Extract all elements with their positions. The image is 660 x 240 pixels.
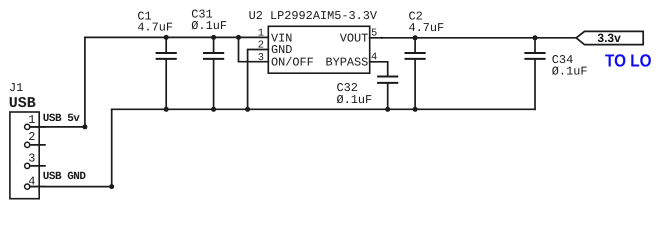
net label USB 5v <box>43 113 81 125</box>
label C1 <box>137 10 173 35</box>
pin number J1 1 <box>28 113 35 127</box>
svg-text:TO LO: TO LO <box>605 50 652 70</box>
svg-text:4.7uF: 4.7uF <box>137 20 173 34</box>
IC U2 LP2992AIM5-3.3V body <box>268 26 369 73</box>
junction node C1 bottom <box>164 107 169 112</box>
connector J1 pin 4 <box>25 184 45 189</box>
svg-text:Ø.1uF: Ø.1uF <box>191 19 227 33</box>
connector J1 pin 1 <box>25 124 45 129</box>
label J1 <box>9 81 23 95</box>
wire USB 5v from J1 pin1 to riser <box>30 126 85 128</box>
label C32 <box>337 81 373 107</box>
wire VIN branch down to ON/OFF pin <box>239 37 269 61</box>
connector J1 box <box>10 112 39 199</box>
net label USB GND <box>43 171 87 183</box>
junction node C34 top <box>533 35 538 40</box>
svg-text:VOUT: VOUT <box>340 31 369 45</box>
capacitor C2 <box>406 38 425 110</box>
wire BYPASS to C32 <box>370 62 388 76</box>
pin number J1 2 <box>28 130 35 144</box>
svg-text:2: 2 <box>28 130 35 144</box>
flag 3.3v <box>576 31 643 44</box>
label TO LO <box>605 50 652 70</box>
label C34 <box>552 53 588 78</box>
svg-text:3.3v: 3.3v <box>597 31 621 45</box>
pin number J1 3 <box>28 151 35 165</box>
junction node C1 top <box>164 35 169 40</box>
wire VOUT rail to flag <box>370 37 577 39</box>
junction node C2 bottom <box>413 107 418 112</box>
capacitor C32 <box>378 77 397 110</box>
svg-text:4.7uF: 4.7uF <box>409 21 445 35</box>
svg-text:USB GND: USB GND <box>43 171 87 183</box>
pin name ON/OFF <box>271 55 314 69</box>
svg-text:USB: USB <box>9 95 36 112</box>
svg-text:J1: J1 <box>9 81 23 95</box>
pin number U2 4 <box>371 51 377 63</box>
wire C34 ground lead up <box>534 60 536 110</box>
pin number U2 3 <box>258 52 264 64</box>
pin name VOUT <box>340 31 369 45</box>
pin number U2 5 <box>371 28 377 40</box>
junction node C2 top <box>413 35 418 40</box>
label U2 title <box>249 9 378 23</box>
connector J1 pin 2 <box>25 142 45 147</box>
pin name GND <box>271 43 292 57</box>
wire ground rail <box>112 108 535 110</box>
label C31 <box>191 8 227 33</box>
junction node GND pin2 <box>245 107 250 112</box>
svg-text:1: 1 <box>258 28 264 40</box>
wire 5V top rail <box>85 36 268 38</box>
wire GND riser up to ground rail <box>111 109 113 186</box>
svg-text:3: 3 <box>28 151 35 165</box>
svg-text:1: 1 <box>28 113 35 127</box>
wire USB GND from J1 pin4 <box>30 186 112 188</box>
wire 5V riser up to top rail <box>84 37 86 127</box>
capacitor C34 <box>525 38 544 59</box>
junction node C31 top <box>211 35 216 40</box>
svg-text:Ø.1uF: Ø.1uF <box>337 93 373 107</box>
connector J1 pin 3 <box>25 163 45 168</box>
svg-text:ON/OFF: ON/OFF <box>271 55 314 69</box>
svg-text:4: 4 <box>371 51 377 63</box>
svg-text:3: 3 <box>258 52 264 64</box>
capacitor C1 <box>157 37 176 109</box>
junction node C31 bottom <box>211 107 216 112</box>
svg-text:U2 LP2992AIM5-3.3V: U2 LP2992AIM5-3.3V <box>249 9 378 23</box>
pin number U2 1 <box>258 28 264 40</box>
junction node VIN <box>236 35 241 40</box>
svg-text:5: 5 <box>371 28 377 40</box>
svg-text:2: 2 <box>258 39 264 51</box>
junction node USB GND corner <box>109 184 114 189</box>
label USB <box>9 95 36 112</box>
svg-text:BYPASS: BYPASS <box>325 55 368 69</box>
junction node C32 bottom <box>385 107 390 112</box>
wire GND pin2 riser to ground rail <box>248 50 269 110</box>
pin number J1 4 <box>28 175 35 189</box>
capacitor C31 <box>204 37 223 109</box>
svg-text:USB 5v: USB 5v <box>43 113 81 125</box>
pin name BYPASS <box>325 55 368 69</box>
pin name VIN <box>271 31 292 45</box>
pin number U2 2 <box>258 39 264 51</box>
junction node USB 5v corner <box>82 124 87 129</box>
svg-text:Ø.1uF: Ø.1uF <box>552 65 588 79</box>
label C2 <box>409 9 445 34</box>
net label 3.3v <box>597 31 621 45</box>
svg-text:4: 4 <box>28 175 35 189</box>
pin 5 connection nub <box>381 37 383 39</box>
